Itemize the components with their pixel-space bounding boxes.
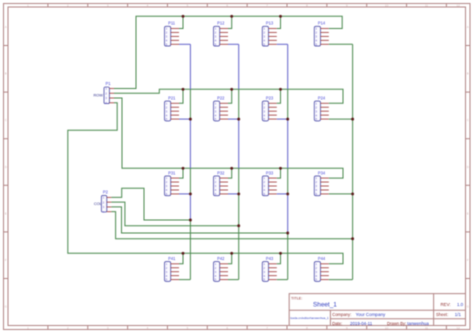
svg-text:tanwenhua: tanwenhua [407, 321, 429, 326]
junction ROW2/P23 riser [279, 88, 282, 91]
svg-text:P12: P12 [217, 21, 225, 26]
wire P21 pin5 to COL1 [179, 118, 190, 120]
title block [289, 294, 465, 326]
wire P32 pin1 riser to ROW3 trunk [228, 168, 232, 178]
connector P43 [262, 256, 277, 282]
junction COL3/P33 pin5 [286, 192, 289, 195]
svg-text:P41: P41 [168, 256, 176, 261]
svg-text:Company:: Company: [332, 312, 351, 317]
svg-text:TITLE:: TITLE: [291, 296, 302, 300]
svg-text:2019-04-11: 2019-04-11 [350, 321, 373, 326]
connector P23 [262, 96, 277, 122]
svg-text:P42: P42 [217, 256, 225, 261]
svg-text:P31: P31 [168, 170, 176, 175]
wire net COL2: column vertical line [238, 44, 240, 279]
connector P11 [165, 21, 180, 47]
wire P44 pin5 to COL4 [329, 279, 353, 281]
svg-text:P13: P13 [266, 21, 274, 26]
wire P2 pin3 to COL3 [111, 207, 287, 233]
wire P32 pin5 to COL2 [228, 193, 239, 195]
junction COL2/P2 pin2 wire [237, 224, 240, 227]
junction COL1/P21 pin5 [189, 118, 192, 121]
junction ROW1/P11 riser [182, 15, 185, 18]
connector P24 [314, 96, 329, 122]
svg-text:P32: P32 [217, 170, 225, 175]
junction ROW1/P12 riser [230, 15, 233, 18]
junction COL4/P2 pin4 wire [351, 237, 354, 240]
svg-text:P22: P22 [217, 96, 225, 101]
svg-text:P1: P1 [106, 81, 112, 86]
svg-text:REV:: REV: [441, 302, 451, 307]
junction COL4/P34 pin5 [351, 192, 354, 195]
wire P33 pin5 to COL3 [277, 193, 288, 195]
wire P43 pin5 to COL3 [277, 279, 288, 281]
junction ROW2/P22 riser [230, 88, 233, 91]
svg-text:COL: COL [94, 202, 102, 206]
wire P11 pin5 to COL1 [179, 43, 190, 45]
wire P34 pin5 to COL4 [329, 193, 353, 195]
wire P33 pin1 riser to ROW3 trunk [277, 168, 281, 178]
junction ROW2/P21 riser [182, 88, 185, 91]
wire P23 pin1 riser to ROW2 trunk [277, 89, 281, 103]
connector P34 [314, 170, 329, 196]
svg-text:Sheet_1: Sheet_1 [313, 301, 337, 308]
svg-text:A: A [5, 25, 7, 29]
wire P23 pin5 to COL3 [277, 118, 288, 120]
svg-text:B: B [467, 72, 469, 76]
junction COL2/P32 pin5 [237, 192, 240, 195]
wire P41 pin5 to COL1 [179, 279, 190, 281]
wire P31 pin1 riser to ROW3 trunk [179, 168, 183, 178]
wire P2 pin1 to COL1 [111, 188, 190, 220]
wire P2 pin2 to COL2 [111, 202, 238, 226]
svg-text:10: 10 [385, 326, 389, 330]
svg-text:P14: P14 [318, 21, 326, 26]
connector P22 [214, 96, 229, 122]
wire P21 pin1 riser to ROW2 trunk [179, 89, 183, 103]
connector P42 [214, 256, 229, 282]
junction ROW3/P33 riser [279, 167, 282, 170]
wire P13 pin1 riser to ROW1 trunk [277, 16, 281, 28]
svg-text:12: 12 [457, 4, 461, 8]
wire P12 pin1 riser to ROW1 trunk [228, 16, 232, 28]
wire net ROW4: P1 pin4 to row-4 key pin1 trunk [68, 103, 343, 264]
svg-text:P43: P43 [266, 256, 274, 261]
wire net ROW3: P1 pin3 to row-3 key pin1 trunk [114, 98, 343, 178]
svg-text:E: E [467, 211, 469, 215]
svg-text:F: F [5, 258, 7, 262]
connector P13 [262, 21, 277, 47]
junction ROW3/P31 riser [182, 167, 185, 170]
svg-text:P24: P24 [318, 96, 326, 101]
svg-text:11: 11 [425, 326, 428, 330]
connector P31 [165, 170, 180, 196]
connector P33 [262, 170, 277, 196]
svg-text:P23: P23 [266, 96, 274, 101]
wire P22 pin5 to COL2 [228, 118, 239, 120]
junction ROW4/P43 riser [279, 252, 282, 255]
wire P42 pin1 riser to ROW4 trunk [228, 253, 232, 263]
svg-text:Date:: Date: [332, 321, 342, 326]
connector P44 [314, 256, 329, 282]
connector P32 [214, 170, 229, 196]
wire net COL3: column vertical line [287, 44, 289, 279]
junction COL1/P2 pin1 wire [189, 219, 192, 222]
svg-text:lceda.cn/editor/tanwenhua_1: lceda.cn/editor/tanwenhua_1 [290, 316, 329, 320]
connector P41 [165, 256, 180, 282]
junction COL4/P24 pin5 [351, 118, 354, 121]
svg-text:F: F [467, 258, 469, 262]
wire P13 pin5 to COL3 [277, 43, 288, 45]
junction COL1/P31 pin5 [189, 192, 192, 195]
svg-text:Your Company: Your Company [356, 312, 386, 317]
wire P24 pin5 to COL4 [329, 118, 353, 120]
junction ROW4/P42 riser [230, 252, 233, 255]
wire P43 pin1 riser to ROW4 trunk [277, 253, 281, 263]
connector P12 [214, 21, 229, 47]
junction COL3/P2 pin3 wire [286, 232, 289, 235]
svg-text:P34: P34 [318, 170, 326, 175]
wire P11 pin1 riser to ROW1 trunk [179, 16, 183, 28]
svg-text:P11: P11 [168, 21, 176, 26]
svg-text:B: B [5, 72, 7, 76]
svg-text:ROW: ROW [94, 93, 104, 97]
svg-text:Drawn By:: Drawn By: [387, 321, 406, 326]
junction ROW4/P41 riser [182, 252, 185, 255]
connector P14 [314, 21, 329, 47]
junction ROW3/P32 riser [230, 167, 233, 170]
svg-text:P33: P33 [266, 170, 274, 175]
wire P12 pin5 to COL2 [228, 43, 239, 45]
svg-text:P21: P21 [168, 96, 176, 101]
svg-text:12: 12 [457, 326, 461, 330]
svg-text:10: 10 [385, 4, 389, 8]
connector P2 (COL) [94, 190, 112, 214]
svg-text:Sheet:: Sheet: [436, 312, 448, 317]
svg-text:A: A [467, 25, 469, 29]
svg-text:E: E [5, 211, 7, 215]
wire P41 pin1 riser to ROW4 trunk [179, 253, 183, 263]
junction ROW1/P13 riser [279, 15, 282, 18]
wire net COL4: column vertical line [352, 44, 354, 279]
wire P42 pin5 to COL2 [228, 279, 239, 281]
connector P21 [165, 96, 180, 122]
wire net ROW2: P1 pin2 to row-2 key pin1 trunk [114, 89, 343, 103]
connector P1 (ROW) [94, 81, 115, 105]
wire P2 pin4 to COL4 [111, 212, 352, 239]
wire P14 pin5 to COL4 [329, 43, 353, 45]
svg-text:P2: P2 [103, 190, 109, 195]
wire P22 pin1 riser to ROW2 trunk [228, 89, 232, 103]
wire net COL1: column vertical line [189, 44, 191, 279]
junction COL2/P22 pin5 [237, 118, 240, 121]
wire net ROW1: P1 pin1 to row-1 key pin1 trunk [114, 16, 342, 88]
svg-text:11: 11 [425, 4, 428, 8]
wire P31 pin5 to COL1 [179, 193, 190, 195]
svg-text:P44: P44 [318, 256, 326, 261]
junction COL3/P23 pin5 [286, 118, 289, 121]
svg-text:1.0: 1.0 [457, 302, 464, 307]
svg-text:1/1: 1/1 [455, 312, 462, 317]
